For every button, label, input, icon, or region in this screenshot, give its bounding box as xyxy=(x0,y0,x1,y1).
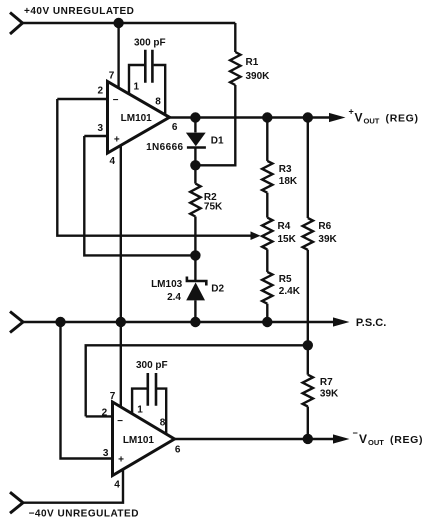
resistor R7 39K xyxy=(307,345,309,374)
svg-text:8: 8 xyxy=(160,417,166,428)
resistor R1 390K xyxy=(230,52,240,85)
svg-text:390K: 390K xyxy=(246,71,271,82)
wire pin 3 bottom op-amp to P.S.C. xyxy=(61,322,113,459)
arrow -Vout xyxy=(333,434,350,443)
input chevron -40V unregulated xyxy=(10,492,23,513)
svg-text:2.4K: 2.4K xyxy=(279,286,301,297)
svg-text:P.S.C.: P.S.C. xyxy=(356,317,386,329)
wire +Vout output line from pin 6 xyxy=(170,116,332,118)
svg-text:R5: R5 xyxy=(279,274,292,285)
svg-text:+: + xyxy=(349,107,354,117)
wire pin 8 comp lead to capacitor (bottom) xyxy=(157,389,166,435)
node dot D2 bottom on P.S.C. xyxy=(190,317,200,327)
node dot D1 cathode / R2 top junction xyxy=(190,160,200,170)
svg-text:OUT: OUT xyxy=(364,116,380,125)
node dot R6/R7 junction xyxy=(303,340,313,350)
node dot R5 bottom on P.S.C. xyxy=(262,317,272,327)
svg-text:R7: R7 xyxy=(320,377,333,388)
svg-text:6: 6 xyxy=(175,445,181,456)
svg-text:−: − xyxy=(113,95,119,106)
svg-text:4: 4 xyxy=(110,156,116,167)
svg-text:2.4: 2.4 xyxy=(167,292,181,303)
node dot R2 bottom / D2 top / pin3 tap junction xyxy=(190,250,200,260)
svg-text:R6: R6 xyxy=(318,221,331,232)
resistor R4 15K (adjustable) xyxy=(262,218,272,250)
svg-text:3: 3 xyxy=(98,123,104,134)
capacitor C1 300 pF (top) xyxy=(145,50,152,83)
svg-text:75K: 75K xyxy=(204,201,223,212)
node dot pin4/pin7 on P.S.C. xyxy=(116,317,126,327)
svg-text:+40V UNREGULATED: +40V UNREGULATED xyxy=(24,6,134,17)
svg-text:1N6666: 1N6666 xyxy=(146,142,183,153)
svg-text:15K: 15K xyxy=(278,234,297,245)
node dot R7 bottom on -Vout line xyxy=(303,434,313,444)
svg-text:7: 7 xyxy=(109,71,115,82)
node dot D1 anode on +Vout line xyxy=(190,112,200,122)
wire R3 top lead xyxy=(266,118,268,161)
diode D1 1N6666 xyxy=(194,118,196,133)
wire pin 2 stub (top op-amp inverting input) xyxy=(57,98,107,100)
op-amp U2 LM101 (bottom) xyxy=(113,402,175,476)
svg-text:V: V xyxy=(355,111,363,125)
svg-text:D2: D2 xyxy=(211,283,224,294)
svg-text:R3: R3 xyxy=(279,164,292,175)
svg-text:LM101: LM101 xyxy=(121,113,153,124)
svg-text:D1: D1 xyxy=(211,136,224,147)
resistor R2 75K xyxy=(194,165,196,183)
input chevron ground/common xyxy=(10,312,23,333)
svg-text:8: 8 xyxy=(155,96,161,107)
op-amp U1 LM101 (top) xyxy=(108,82,170,154)
wire -Vout output line xyxy=(175,438,336,440)
svg-text:2: 2 xyxy=(102,407,108,418)
wire R6 top lead xyxy=(307,118,309,219)
svg-text:3: 3 xyxy=(103,448,109,459)
wire pin 4 of top op-amp down to P.S.C. rail xyxy=(120,146,122,323)
arrow P.S.C. xyxy=(333,317,350,326)
arrow +Vout xyxy=(329,113,346,122)
svg-text:LM101: LM101 xyxy=(123,435,155,446)
wire pin 3 stub (top op-amp non-inverting input) xyxy=(84,135,107,137)
resistor R6 39K xyxy=(303,218,313,250)
wire pin 3 reference line to D2 top node xyxy=(84,136,195,255)
svg-text:39K: 39K xyxy=(318,234,337,245)
svg-text:39K: 39K xyxy=(320,389,339,400)
wire R5 bottom lead to P.S.C. xyxy=(266,304,268,322)
svg-text:4: 4 xyxy=(114,480,120,491)
node dot R6 top on +Vout line xyxy=(303,112,313,122)
svg-text:(REG): (REG) xyxy=(386,112,419,124)
svg-text:1: 1 xyxy=(137,404,143,415)
wire R3/R4 link xyxy=(266,193,268,218)
svg-text:LM103: LM103 xyxy=(151,279,183,290)
svg-text:OUT: OUT xyxy=(368,438,384,447)
node dot pin3 bottom op-amp on P.S.C. xyxy=(55,317,65,327)
capacitor C2 300 pF (bottom) xyxy=(148,373,156,406)
wire pin 1 comp lead to capacitor (bottom) xyxy=(132,389,147,415)
svg-text:300 pF: 300 pF xyxy=(134,37,166,48)
svg-text:−40V UNREGULATED: −40V UNREGULATED xyxy=(29,508,139,519)
resistor R5 2.4K xyxy=(262,272,272,304)
wire pin 2 feedback: left down and across to R4 wiper xyxy=(57,99,252,236)
wire pin 4 bottom op-amp to -40V rail xyxy=(23,469,123,502)
svg-text:−: − xyxy=(117,416,123,427)
wire pin 8 comp lead to capacitor xyxy=(154,65,166,115)
wire pin 7 bottom op-amp to P.S.C. xyxy=(120,322,122,408)
node junction dot on +40V rail xyxy=(113,18,123,28)
zener diode D2 LM103 2.4 xyxy=(194,255,196,281)
svg-text:(REG): (REG) xyxy=(390,434,423,446)
svg-text:+: + xyxy=(118,455,124,466)
wire R1 bottom lead crossing +Vout line down to D1 cathode node xyxy=(195,85,235,165)
wire pin 1 comp lead to capacitor xyxy=(129,65,144,95)
wire pin 7 top op-amp to +40V rail xyxy=(117,23,119,89)
input chevron +40V unregulated xyxy=(10,13,23,35)
svg-text:V: V xyxy=(359,432,367,446)
wire top +40V rail xyxy=(23,22,236,24)
svg-text:18K: 18K xyxy=(279,176,298,187)
wire R1 top lead from rail corner xyxy=(234,23,236,52)
svg-text:6: 6 xyxy=(172,122,178,133)
wire P.S.C. rail xyxy=(23,321,335,323)
svg-text:1: 1 xyxy=(134,82,140,93)
wire bottom op-amp pin 2 feedback to R6/R7 node xyxy=(86,345,308,416)
svg-text:−: − xyxy=(353,428,358,438)
svg-text:+: + xyxy=(114,135,120,146)
node dot R3 top on +Vout line xyxy=(262,112,272,122)
wire R4/R5 link xyxy=(266,249,268,272)
svg-text:7: 7 xyxy=(110,391,116,402)
resistor R3 18K xyxy=(262,161,272,193)
svg-text:R4: R4 xyxy=(278,221,291,232)
svg-text:300 pF: 300 pF xyxy=(136,360,168,371)
svg-text:2: 2 xyxy=(98,86,104,97)
svg-text:R1: R1 xyxy=(246,57,259,68)
wire R6 bottom lead crossing P.S.C. to feedback node xyxy=(307,250,309,345)
arrow R4 wiper xyxy=(251,231,261,240)
